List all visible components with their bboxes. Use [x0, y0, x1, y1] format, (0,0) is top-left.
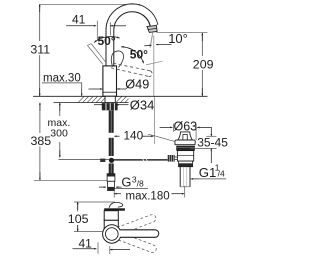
pop-up rod [59, 158, 168, 163]
dimension 105 [74, 202, 115, 231]
waste body [177, 151, 193, 162]
water stream tilted [150, 33, 153, 48]
svg-text:10°: 10° [168, 31, 188, 46]
svg-text:41: 41 [79, 236, 93, 250]
waste locknut [179, 161, 193, 167]
svg-text:max.30: max.30 [43, 72, 81, 84]
label G3/8 with arrows [99, 174, 148, 189]
dimension 140 [114, 135, 153, 137]
waste seal [176, 146, 195, 151]
svg-text:Ø34: Ø34 [130, 98, 155, 113]
angle arc 50 deg upper [94, 37, 119, 43]
angle arc 50 deg lower [121, 47, 143, 63]
svg-text:105: 105 [68, 212, 89, 226]
svg-text:41: 41 [72, 13, 86, 27]
lever knob loop phantom [111, 51, 123, 67]
label G1 1/4 with leader [191, 163, 226, 180]
dimension 209 [157, 33, 208, 96]
dimension 41 bottom [73, 242, 131, 254]
svg-text:385: 385 [31, 134, 52, 148]
svg-text:50°: 50° [98, 34, 116, 48]
pop-up waste plug cone [178, 132, 193, 140]
phantom guide line [146, 61, 163, 65]
mounting nut [102, 103, 118, 110]
label max.30 with leader [42, 72, 82, 96]
basin contour [148, 134, 175, 141]
svg-text:G1: G1 [199, 165, 217, 180]
dimension Ø63 [160, 124, 212, 140]
faucet body [103, 66, 117, 96]
svg-text:G: G [121, 175, 131, 190]
supply hose upper [109, 111, 114, 133]
top view spout phantom up [117, 214, 157, 235]
rod joint [100, 158, 114, 163]
countertop deck [33, 96, 208, 102]
mousseur aerator [147, 26, 157, 33]
dimension 311 [39, 4, 41, 96]
dimension 385 [39, 103, 41, 180]
dimension Ø49 arrows [89, 88, 127, 90]
waste flange [175, 140, 195, 145]
top view lever bar [104, 208, 125, 210]
dimension max.180 [114, 186, 185, 198]
svg-text:Ø63: Ø63 [174, 119, 198, 133]
lever up phantom [87, 44, 106, 65]
svg-text:max.180: max.180 [126, 190, 170, 202]
top extension line [40, 3, 140, 5]
spout gooseneck tube [110, 8, 154, 67]
spray angle 10 deg indicator [144, 45, 171, 46]
supply hose lower [109, 163, 114, 173]
svg-text:50°: 50° [130, 48, 148, 62]
top view lever tip curve [109, 202, 123, 207]
top view swivel ring [103, 225, 121, 243]
svg-text:Ø49: Ø49 [125, 78, 149, 92]
svg-text:311: 311 [30, 42, 50, 56]
svg-text:/8: /8 [137, 179, 144, 189]
svg-text:209: 209 [193, 57, 214, 71]
top view spout solid [120, 230, 159, 238]
extension line hose end [34, 180, 107, 182]
dimension 35-45 [190, 127, 216, 163]
drain axis reference line [153, 36, 156, 144]
supply hose connector G3/8 [107, 174, 115, 191]
supply hose mid [109, 138, 114, 156]
svg-text:300: 300 [50, 128, 68, 140]
svg-text:35-45: 35-45 [197, 136, 228, 150]
waste tailpipe [180, 167, 190, 187]
svg-text:/4: /4 [218, 169, 225, 179]
top view cartridge housing [104, 211, 118, 221]
svg-text:140: 140 [124, 129, 144, 143]
top view body [104, 220, 118, 228]
dimension Ø34 arrows [94, 104, 129, 106]
top view spout phantom down [117, 232, 157, 253]
waste actuator block [168, 155, 178, 162]
dimension 41 top [66, 21, 126, 41]
dimension max.300 [59, 103, 61, 158]
lever down phantom dashed [111, 63, 152, 76]
mounting shank [105, 96, 115, 102]
